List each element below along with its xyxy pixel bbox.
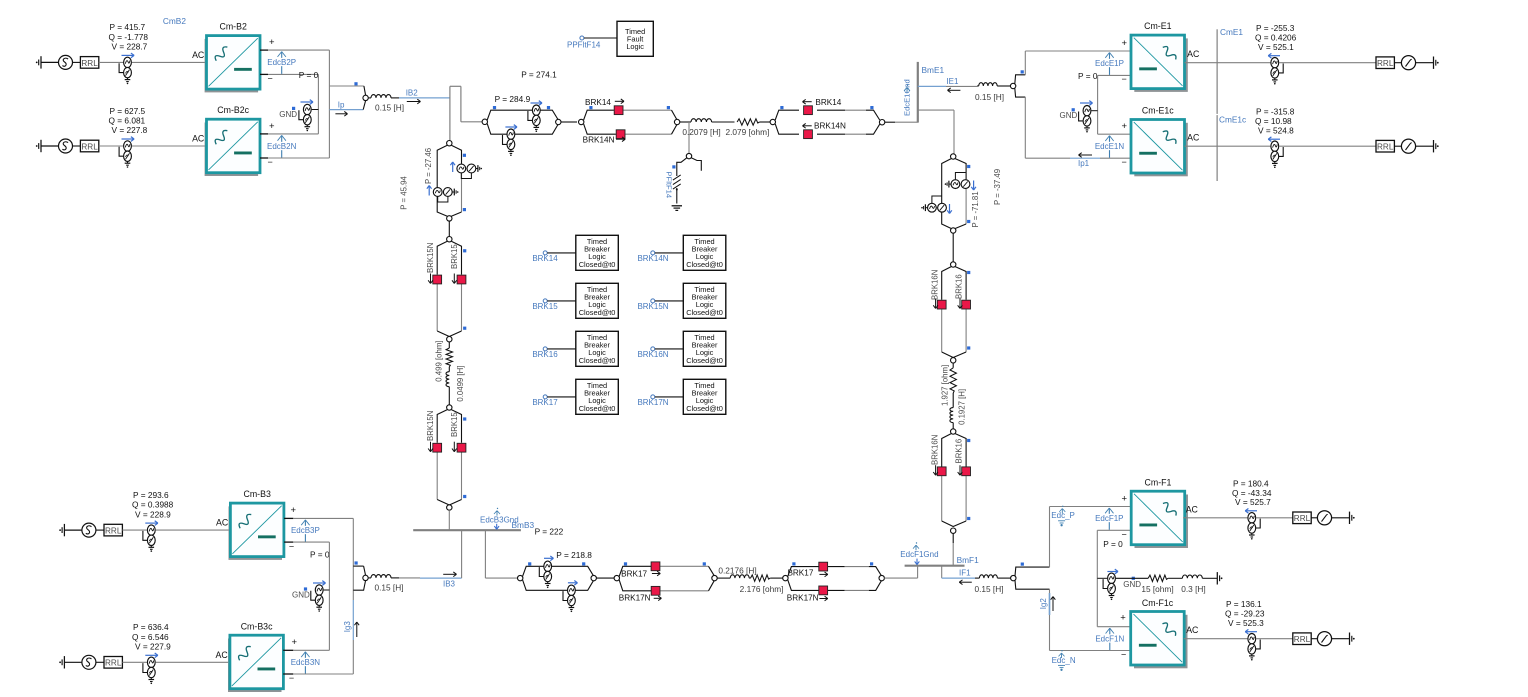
svg-text:BRK16N: BRK16N [930, 435, 939, 465]
wire [96, 529, 104, 531]
node E1 reactor [1010, 83, 1015, 88]
wire [1394, 145, 1401, 147]
svg-text:P = 218.8: P = 218.8 [556, 550, 592, 560]
svg-text:P = 0: P = 0 [310, 550, 330, 560]
svg-text:AC: AC [192, 134, 205, 144]
current arrow [122, 138, 135, 140]
RRL impedance [1376, 140, 1394, 152]
multimeter P=-37.49 [932, 196, 942, 203]
svg-text:GND: GND [1123, 580, 1141, 589]
voltage label EdcB2P [281, 52, 283, 74]
node [712, 575, 717, 580]
wire to converter [132, 145, 207, 147]
AC multimeter [1248, 513, 1256, 523]
voltage label EdcB3P [304, 520, 306, 542]
RRL impedance [80, 140, 98, 152]
svg-text:+: + [269, 121, 275, 132]
node top line left [482, 119, 487, 124]
node breaker branch BRK14 right [770, 119, 775, 124]
svg-text:AC: AC [216, 518, 229, 528]
current arrow [1268, 138, 1280, 140]
bus BmE1 [917, 62, 919, 123]
wire [952, 233, 954, 262]
inductor 0.3 H [1182, 575, 1202, 578]
svg-text:Cm-B3c: Cm-B3c [241, 622, 273, 632]
svg-text:P = 627.5: P = 627.5 [110, 106, 146, 116]
converter Cm-F1 [1135, 495, 1189, 549]
wire [1116, 577, 1148, 579]
bus joint top-left [449, 86, 451, 143]
breaker branch BRK16 second [942, 434, 952, 467]
inductor 0.1927 H vertical [952, 393, 954, 408]
breaker BRK14N [616, 130, 625, 139]
wire [1311, 517, 1317, 519]
measuring branch left chain [437, 145, 447, 216]
svg-text:BRK15: BRK15 [532, 302, 558, 311]
inductor 0.0499 H vertical [448, 367, 450, 372]
svg-text:RRL: RRL [1294, 514, 1311, 523]
terminating ground [1353, 517, 1355, 519]
svg-text:AC: AC [1187, 49, 1200, 59]
wire Ip [329, 109, 363, 111]
node [951, 528, 956, 533]
breaker BRK16 second [962, 467, 971, 476]
svg-text:15 [ohm]: 15 [ohm] [1141, 584, 1173, 594]
svg-text:P = 222: P = 222 [535, 526, 564, 536]
svg-text:Closed@t0: Closed@t0 [686, 404, 723, 413]
svg-text:0.1927 [H]: 0.1927 [H] [958, 389, 967, 425]
wire from converter [1185, 62, 1271, 64]
svg-text:GND: GND [279, 110, 297, 119]
wire [99, 61, 123, 63]
svg-text:CmB2: CmB2 [163, 16, 186, 26]
svg-text:BRK14N: BRK14N [583, 136, 615, 145]
svg-text:V = 525.1: V = 525.1 [1258, 42, 1294, 52]
svg-text:AC: AC [1186, 625, 1199, 635]
plus terminal Cm-B2 [260, 49, 268, 51]
svg-text:Q = 6.081: Q = 6.081 [109, 116, 146, 126]
plus terminal Cm-B3c [283, 649, 293, 651]
svg-text:Closed@t0: Closed@t0 [579, 404, 616, 413]
plus wire Cm-F1c [1097, 626, 1130, 628]
svg-text:IE1: IE1 [946, 77, 959, 86]
svg-text:BRK15N: BRK15N [426, 243, 435, 273]
svg-text:EdcE1Gnd: EdcE1Gnd [903, 79, 912, 116]
wire [448, 221, 450, 236]
multimeter P=284.9 top [532, 105, 540, 115]
breaker BRK16N second [937, 467, 946, 476]
svg-text:P = -315.8: P = -315.8 [1256, 107, 1295, 117]
inductor 0.2176 H [717, 577, 730, 579]
svg-text:Q = 6.546: Q = 6.546 [132, 632, 169, 642]
ac source ground [36, 145, 38, 147]
source S [82, 655, 96, 669]
svg-text:Closed@t0: Closed@t0 [686, 356, 723, 365]
svg-text:GND: GND [292, 591, 310, 600]
svg-text:Closed@t0: Closed@t0 [686, 308, 723, 317]
current arrow [1245, 510, 1257, 512]
svg-text:P = 45.94: P = 45.94 [399, 176, 408, 210]
multimeter P=218.8 [544, 561, 552, 571]
svg-text:BRK14: BRK14 [532, 254, 558, 263]
svg-text:BRK17: BRK17 [621, 569, 647, 578]
svg-text:BRK15: BRK15 [450, 244, 459, 269]
svg-text:BmB3: BmB3 [512, 520, 535, 530]
svg-text:Edc_N: Edc_N [1052, 656, 1076, 665]
node [447, 405, 452, 410]
converter Cm-B2 [205, 39, 259, 93]
wire fault tap [688, 122, 690, 153]
resistor 1.927 ohm vertical [952, 363, 954, 368]
svg-text:AC: AC [192, 50, 205, 60]
minus terminal Cm-B2c [260, 157, 268, 159]
node [879, 120, 884, 125]
plus wire Cm-E1 [1025, 50, 1131, 52]
wire [73, 61, 81, 63]
breaker BRK16N [937, 300, 946, 309]
svg-text:Cm-F1c: Cm-F1c [1142, 598, 1174, 608]
svg-text:+: + [1120, 612, 1126, 623]
minus terminal Cm-B3 [284, 541, 293, 543]
inductor 0.15 H F1 [975, 577, 979, 579]
wire from converter [1183, 517, 1247, 519]
node [447, 337, 452, 342]
current arrow [145, 522, 158, 524]
breaker branch BRK15 second [437, 410, 447, 443]
svg-text:Logic: Logic [626, 42, 644, 51]
breaker BRK17 [651, 562, 660, 571]
svg-text:1.927 [ohm]: 1.927 [ohm] [940, 365, 949, 406]
svg-text:RRL: RRL [1294, 635, 1311, 644]
wire [96, 661, 104, 663]
svg-text:EdcE1P: EdcE1P [1095, 59, 1124, 68]
svg-text:P = 274.1: P = 274.1 [521, 70, 557, 80]
voltage label EdcE1P [1109, 53, 1111, 75]
node F1 reactor [1011, 575, 1016, 580]
AC multimeter [124, 141, 132, 151]
wire from converter [1184, 638, 1248, 640]
plus terminal Cm-B3 [284, 517, 293, 519]
svg-text:0.15 [H]: 0.15 [H] [974, 584, 1003, 594]
node [951, 429, 956, 434]
bus BmB3 [413, 529, 521, 531]
node fault [686, 153, 691, 158]
converter Cm-F1c [1134, 615, 1188, 669]
svg-text:IB2: IB2 [406, 88, 419, 97]
svg-text:0.2079 [H]: 0.2079 [H] [682, 127, 720, 137]
timed fault logic box [617, 21, 653, 56]
converter Cm-E1c [1134, 123, 1188, 177]
AC multimeter [147, 657, 155, 667]
svg-text:0.499 [ohm]: 0.499 [ohm] [435, 341, 444, 382]
svg-text:+: + [292, 637, 298, 648]
source S [59, 139, 73, 153]
svg-text:BRK17N: BRK17N [787, 593, 819, 602]
svg-text:−: − [1122, 157, 1127, 167]
node chain top [951, 154, 956, 159]
timed breaker logic box BRK17N [683, 379, 726, 414]
svg-text:Cm-F1: Cm-F1 [1145, 477, 1172, 487]
inductor 0.15 H B3 [368, 577, 371, 579]
minus wire Cm-E1 [1098, 74, 1131, 76]
GND midpoint multimeter [303, 104, 311, 114]
svg-text:BRK16: BRK16 [532, 350, 558, 359]
phase meter [1401, 56, 1415, 70]
svg-text:0.15 [H]: 0.15 [H] [975, 92, 1004, 102]
svg-text:EdcF1N: EdcF1N [1095, 634, 1124, 643]
svg-text:0.0499 [H]: 0.0499 [H] [456, 366, 465, 402]
svg-text:BmF1: BmF1 [957, 555, 980, 565]
fault earth ground [672, 205, 682, 207]
AC multimeter [1271, 141, 1279, 151]
wire IF1 [941, 566, 943, 578]
svg-text:P = 0: P = 0 [1078, 71, 1098, 81]
svg-text:BRK17N: BRK17N [619, 593, 651, 602]
wire [122, 661, 146, 663]
resistor 15 ohm [1148, 575, 1168, 581]
ac source ground [59, 529, 61, 531]
svg-text:+: + [1122, 38, 1128, 49]
node [591, 575, 596, 580]
timed breaker logic box BRK15 [576, 283, 619, 318]
multimeter P=45.94 [457, 164, 466, 173]
phase meter [1317, 632, 1331, 646]
wire [73, 145, 81, 147]
node breaker BRK17 left [614, 575, 619, 580]
breaker BRK17N [651, 586, 660, 595]
phase meter [1317, 511, 1331, 525]
svg-text:−: − [289, 673, 294, 683]
ground chopper resistor [1221, 577, 1223, 579]
svg-text:Q = -1.778: Q = -1.778 [109, 32, 149, 42]
svg-text:AC: AC [1187, 133, 1200, 143]
multimeter bottom line [568, 585, 576, 595]
svg-text:EdcB2N: EdcB2N [267, 142, 297, 151]
svg-text:Edc_P: Edc_P [1051, 511, 1075, 520]
node breaker BRK15 top [447, 237, 452, 242]
svg-text:−: − [268, 157, 273, 167]
node [447, 505, 452, 510]
svg-text:Cm-B2: Cm-B2 [220, 22, 247, 32]
svg-text:Ig2: Ig2 [1039, 598, 1048, 610]
wire [99, 145, 123, 147]
RRL impedance [1376, 57, 1394, 69]
terminating ground [1437, 62, 1439, 64]
source S [59, 55, 73, 69]
wire [1332, 517, 1350, 519]
svg-text:Ig3: Ig3 [343, 621, 352, 633]
wire to converter [156, 529, 231, 531]
wire IE1 [918, 85, 946, 87]
svg-text:RRL: RRL [81, 142, 98, 151]
node breaker BRK17 right branch [783, 575, 788, 580]
svg-text:AC: AC [1186, 504, 1199, 514]
svg-text:IB3: IB3 [443, 579, 456, 588]
RRL impedance [104, 524, 122, 536]
plus wire Cm-E1c [1098, 133, 1131, 135]
svg-text:RRL: RRL [81, 59, 98, 68]
wire [122, 529, 146, 531]
measuring branch right chain [942, 159, 952, 229]
multimeter P=-27.46 [433, 188, 442, 197]
ac source ground [36, 62, 38, 64]
resistor 2.079 ohm [737, 119, 760, 125]
wire to bus BmB3 [448, 510, 450, 530]
wire midpoint chain F1 [1096, 530, 1098, 626]
wire to converter [132, 61, 207, 63]
svg-text:0.15 [H]: 0.15 [H] [374, 583, 403, 593]
svg-text:P = 0: P = 0 [1103, 539, 1123, 549]
svg-text:RRL: RRL [1377, 143, 1394, 152]
voltage label EdcB2N [281, 135, 283, 157]
wire [1279, 62, 1376, 64]
svg-text:CmE1c: CmE1c [1219, 115, 1246, 125]
wire [1394, 62, 1401, 64]
wire IB2 [399, 97, 450, 99]
wire bottom line drop [484, 530, 486, 578]
current arrow [145, 654, 158, 656]
wire to bus BmE1 [885, 121, 895, 123]
voltage label EdcF1P [1108, 508, 1110, 530]
voltage label EdcF1N [1109, 628, 1111, 650]
breaker BRK17N second [819, 586, 828, 595]
svg-text:P = 293.6: P = 293.6 [133, 490, 169, 500]
voltage label EdcE1N [1109, 136, 1111, 158]
svg-text:V = 524.8: V = 524.8 [1258, 125, 1294, 135]
svg-text:+: + [291, 505, 297, 516]
breaker BRK14 [614, 106, 623, 115]
svg-text:BRK15: BRK15 [450, 412, 459, 437]
inductor 0.2079 H [680, 121, 691, 123]
current arrow [1268, 55, 1280, 57]
measuring branch top line [487, 110, 558, 120]
timed breaker logic box BRK16 [576, 331, 619, 366]
breaker BRK14 right [804, 106, 813, 115]
breaker BRK15N second [433, 443, 442, 452]
svg-text:Cm-B2c: Cm-B2c [217, 105, 249, 115]
svg-text:EdcE1N: EdcE1N [1095, 142, 1125, 151]
timed breaker logic box BRK15N [683, 283, 726, 318]
svg-text:EdcB3N: EdcB3N [291, 658, 321, 667]
terminating ground [1353, 638, 1355, 640]
wire Ig2 [1049, 593, 1051, 615]
wire to bus BmF1 [884, 577, 917, 579]
breaker BRK17 second [819, 562, 828, 571]
svg-text:BRK14: BRK14 [815, 98, 841, 107]
svg-text:PPFltF14: PPFltF14 [567, 40, 601, 49]
svg-text:P = 636.4: P = 636.4 [133, 622, 169, 632]
node [879, 575, 884, 580]
svg-text:BRK14: BRK14 [585, 98, 611, 107]
minus terminal Cm-B2 [260, 73, 268, 75]
wire to converter [156, 661, 230, 663]
svg-text:RRL: RRL [105, 659, 122, 668]
RRL impedance [80, 57, 98, 69]
svg-text:+: + [269, 37, 275, 48]
svg-text:V = 228.9: V = 228.9 [135, 509, 171, 519]
svg-text:Ip: Ip [338, 101, 345, 110]
svg-text:BRK16: BRK16 [955, 274, 964, 299]
measuring branch bottom line [523, 566, 594, 576]
svg-text:−: − [1121, 650, 1126, 660]
svg-text:Cm-E1: Cm-E1 [1144, 21, 1171, 31]
timed breaker logic box BRK16N [683, 331, 726, 366]
svg-text:P = -37.49: P = -37.49 [993, 169, 1002, 205]
resistor 2.176 ohm [751, 575, 771, 581]
wire [1256, 638, 1293, 640]
wire [1202, 577, 1217, 579]
AC multimeter [1271, 58, 1279, 68]
svg-text:0.3 [H]: 0.3 [H] [1181, 584, 1205, 594]
svg-text:BRK17N: BRK17N [637, 398, 668, 407]
breaker BRK15N [433, 275, 442, 284]
wire [1311, 638, 1317, 640]
svg-text:IF1: IF1 [959, 569, 971, 578]
svg-text:CmE1: CmE1 [1220, 27, 1243, 37]
ac source ground [59, 661, 61, 663]
svg-text:P = 284.9: P = 284.9 [495, 94, 531, 104]
svg-text:−: − [268, 74, 273, 84]
wire [1256, 517, 1293, 519]
bus BmF1 [905, 565, 965, 567]
wire from converter [1185, 145, 1271, 147]
wire DC midpoint chain B3 [328, 542, 330, 650]
inductor 0.15 H E1 [977, 85, 979, 87]
svg-text:P = -27.46: P = -27.46 [424, 148, 433, 184]
timed breaker logic box BRK14 [576, 235, 619, 270]
svg-text:BRK16N: BRK16N [637, 350, 668, 359]
separator line CmE1 [1216, 29, 1218, 114]
fault switch PFltF14 [677, 158, 687, 176]
RRL impedance [1293, 512, 1311, 524]
node [447, 216, 452, 221]
AC multimeter [1248, 634, 1256, 644]
wire Ig3 pole bus [352, 518, 354, 600]
svg-text:EdcF1Gnd: EdcF1Gnd [900, 550, 938, 559]
svg-text:−: − [289, 542, 294, 552]
node left chain top [447, 141, 452, 146]
svg-text:BRK17: BRK17 [532, 398, 558, 407]
svg-text:2.079 [ohm]: 2.079 [ohm] [725, 127, 769, 137]
wire midpoint chain E1 [1097, 75, 1099, 134]
RRL impedance [104, 657, 122, 669]
separator line CmE1c [1216, 115, 1218, 181]
plus terminal Cm-B2c [260, 133, 268, 135]
AC multimeter [124, 57, 132, 67]
timed breaker logic box BRK17 [576, 379, 619, 414]
wire [561, 121, 577, 123]
RRL impedance [1293, 633, 1311, 645]
svg-text:EdcB2P: EdcB2P [267, 58, 296, 67]
converter Cm-B3 [229, 506, 283, 560]
svg-text:Cm-E1c: Cm-E1c [1142, 105, 1174, 115]
svg-text:+: + [1122, 493, 1128, 504]
svg-text:Q = 0.3988: Q = 0.3988 [132, 500, 174, 510]
converter Cm-E1 [1134, 38, 1188, 92]
svg-text:BRK15N: BRK15N [426, 411, 435, 441]
voltage label EdcB3N [304, 652, 306, 674]
svg-text:0.2176 [H]: 0.2176 [H] [718, 565, 756, 575]
wire [1416, 145, 1434, 147]
svg-text:+: + [1122, 121, 1128, 132]
svg-text:BRK14N: BRK14N [637, 254, 668, 263]
node breaker BRK16 top [951, 262, 956, 267]
node [556, 119, 561, 124]
minus wire Cm-E1c Ip1 [1025, 157, 1070, 159]
resistor 0.499 ohm vertical [448, 342, 450, 348]
phase meter [1401, 139, 1415, 153]
timed breaker logic box BRK14N [683, 235, 726, 270]
